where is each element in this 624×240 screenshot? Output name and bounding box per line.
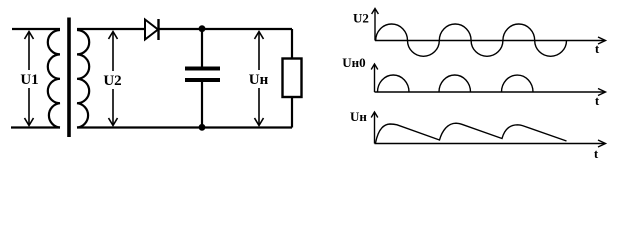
svg-text:U1: U1 bbox=[20, 72, 38, 88]
svg-text:t: t bbox=[595, 41, 600, 56]
wf2 rectified humps curve Uн0 bbox=[378, 75, 534, 92]
wire: secondary bottom rail bbox=[77, 126, 292, 128]
wire: load bottom lead bbox=[291, 97, 293, 128]
diode VD1 bbox=[145, 19, 159, 40]
svg-text:t: t bbox=[595, 93, 600, 108]
transformer T1 core bbox=[67, 18, 71, 138]
wf3 ripple curve Uн bbox=[376, 123, 567, 143]
svg-text:Uн0: Uн0 bbox=[342, 55, 365, 70]
svg-text:Uн: Uн bbox=[249, 72, 269, 88]
wire: secondary top to diode bbox=[77, 28, 145, 30]
wf1 horizontal axis bbox=[375, 37, 606, 44]
wf2 vertical axis bbox=[371, 64, 378, 92]
capacitor C1 bbox=[185, 67, 220, 83]
resistor Rн (load) bbox=[283, 59, 302, 98]
wf3 vertical axis bbox=[371, 112, 378, 144]
transformer T1 primary winding bbox=[48, 30, 60, 128]
node A (top junction dot) bbox=[199, 25, 206, 32]
svg-text:U2: U2 bbox=[353, 11, 369, 26]
svg-text:U2: U2 bbox=[103, 73, 121, 89]
arrow U1 (input voltage) bbox=[25, 32, 34, 126]
node B (bottom junction dot) bbox=[199, 124, 206, 131]
wf1 vertical axis bbox=[372, 9, 379, 41]
wf1 sine curve U2 bbox=[376, 24, 567, 56]
svg-text:Uн: Uн bbox=[350, 109, 367, 124]
wf3 horizontal axis bbox=[375, 140, 606, 147]
wire: primary bottom lead bbox=[11, 126, 60, 128]
svg-text:t: t bbox=[594, 146, 599, 161]
arrow Uн (output voltage) bbox=[255, 32, 264, 126]
transformer T1 secondary winding bbox=[77, 30, 89, 128]
wire: capacitor bottom lead bbox=[201, 82, 203, 128]
wire: load top lead bbox=[291, 29, 293, 58]
wire: primary top lead bbox=[12, 28, 60, 30]
wf2 horizontal axis bbox=[375, 89, 606, 96]
wire: diode to load (top rail) bbox=[159, 28, 292, 30]
wire: capacitor top lead bbox=[201, 29, 203, 67]
arrow U2 (secondary voltage) bbox=[109, 32, 118, 126]
